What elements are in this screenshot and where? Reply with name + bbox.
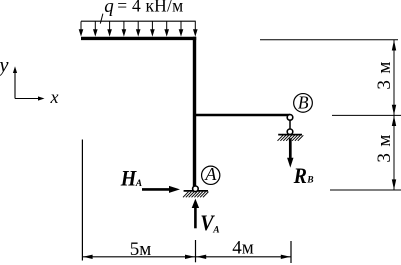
svg-text:A: A bbox=[204, 164, 217, 184]
svg-text:= 4 кН/м: = 4 кН/м bbox=[117, 0, 183, 16]
svg-text:A: A bbox=[212, 225, 219, 235]
svg-text:B: B bbox=[298, 93, 309, 113]
svg-text:B: B bbox=[306, 175, 313, 185]
svg-text:y: y bbox=[0, 55, 9, 77]
svg-text:x: x bbox=[50, 87, 59, 107]
svg-text:5м: 5м bbox=[130, 239, 152, 260]
svg-text:4м: 4м bbox=[232, 238, 254, 259]
svg-text:q: q bbox=[104, 0, 114, 17]
svg-text:3м: 3м bbox=[374, 128, 395, 163]
svg-text:R: R bbox=[293, 163, 307, 188]
svg-text:A: A bbox=[135, 179, 142, 189]
svg-text:3м: 3м bbox=[374, 55, 395, 90]
